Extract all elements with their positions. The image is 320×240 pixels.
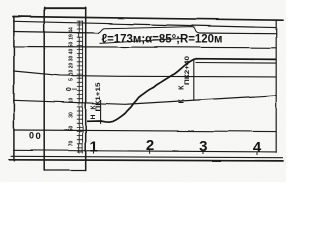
svg-text:40: 40	[69, 49, 75, 55]
svg-text:50: 50	[69, 42, 75, 48]
svg-text:30: 30	[69, 112, 75, 118]
svg-text:70: 70	[69, 141, 75, 147]
svg-text:0: 0	[36, 131, 41, 142]
svg-text:10: 10	[69, 98, 75, 104]
svg-text:ℓ=173м;α=85°;R=120м: ℓ=173м;α=85°;R=120м	[102, 32, 223, 46]
svg-text:0: 0	[66, 87, 73, 91]
svg-text:44: 44	[69, 27, 75, 33]
svg-text:30: 30	[69, 56, 75, 62]
svg-text:50: 50	[69, 126, 75, 132]
svg-text:ПК2+40: ПК2+40	[184, 56, 191, 85]
svg-text:19: 19	[69, 34, 75, 40]
svg-text:20: 20	[69, 63, 75, 69]
svg-text:5: 5	[69, 78, 75, 81]
svg-text:10: 10	[69, 70, 75, 76]
svg-text:0: 0	[29, 130, 34, 140]
